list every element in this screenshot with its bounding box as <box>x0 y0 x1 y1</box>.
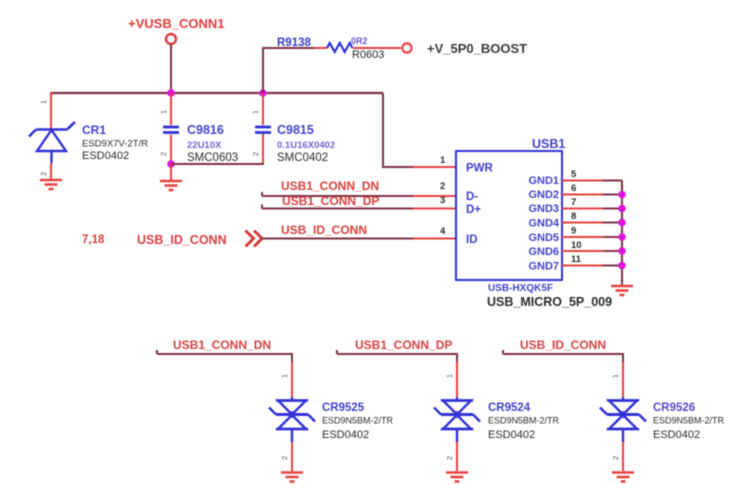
svg-text:8: 8 <box>571 211 576 222</box>
wire USB1_CONN_DN to CR9525 <box>157 350 292 363</box>
svg-text:1: 1 <box>251 110 260 114</box>
wire pin 4 stub USB1 <box>413 238 457 240</box>
svg-text:1: 1 <box>280 374 289 378</box>
wire GND7 pin 11 <box>562 265 604 267</box>
svg-text:2: 2 <box>611 456 620 460</box>
wire from R9138 to +V_5P0_BOOST terminal <box>353 47 401 49</box>
node junction bottom of C9816 <box>167 160 175 168</box>
svg-text:2: 2 <box>251 152 260 156</box>
wire CR1 pin 2 stub <box>50 163 52 179</box>
svg-text:2: 2 <box>39 172 48 176</box>
wire GND1 pin 5 <box>562 180 604 182</box>
svg-text:4: 4 <box>440 226 446 237</box>
svg-text:USB-HXQK5F: USB-HXQK5F <box>488 283 553 294</box>
resistor R9138 <box>277 36 384 61</box>
diode CR1 <box>29 122 148 163</box>
ground below CR1 <box>40 180 62 189</box>
svg-text:1: 1 <box>611 374 620 378</box>
wire PWR branch from top bus to USB1 pin 1 <box>383 93 414 167</box>
svg-text:1: 1 <box>39 100 48 104</box>
svg-text:USB_ID_CONN: USB_ID_CONN <box>137 233 227 247</box>
wire pin 3 stub USB1 <box>413 208 457 210</box>
wire GND3 pin 7 <box>562 208 604 210</box>
node junction pin 8 <box>618 219 626 227</box>
svg-text:0.1U16X0402: 0.1U16X0402 <box>277 140 335 151</box>
svg-text:USB_MICRO_5P_009: USB_MICRO_5P_009 <box>487 295 612 309</box>
ground below CR9524 <box>446 473 468 482</box>
svg-text:ESD9X7V-2T/R: ESD9X7V-2T/R <box>82 139 148 150</box>
node junction pin 10 <box>618 247 626 255</box>
wire GND4 pin 8 <box>562 222 604 224</box>
svg-text:2: 2 <box>280 456 289 460</box>
wire CR9524 pin 1 stub <box>456 362 458 397</box>
svg-text:CR9524: CR9524 <box>488 402 531 414</box>
wire C9815 pin 2 red segment <box>262 135 264 164</box>
wire CR9526 pin 2 stub <box>622 442 624 471</box>
wire GND5 pin 9 <box>562 236 604 238</box>
svg-text:USB1_CONN_DP: USB1_CONN_DP <box>282 194 379 208</box>
svg-text:PWR: PWR <box>466 163 494 175</box>
wire bottom bus C9816 to C9815 <box>171 134 263 164</box>
svg-text:+V_5P0_BOOST: +V_5P0_BOOST <box>427 41 527 56</box>
svg-text:7: 7 <box>571 197 576 208</box>
wire C9816 to ground <box>170 164 172 180</box>
svg-text:ESD9N5BM-2/TR: ESD9N5BM-2/TR <box>322 416 394 426</box>
capacitor C9816 <box>163 123 238 164</box>
svg-text:ID: ID <box>466 234 478 246</box>
svg-text:0R2: 0R2 <box>351 36 368 46</box>
svg-text:GND3: GND3 <box>528 203 559 215</box>
svg-text:6: 6 <box>571 183 576 194</box>
wire C9816 pin 2 stub <box>170 135 172 165</box>
svg-text:CR1: CR1 <box>82 123 106 137</box>
svg-text:7,18: 7,18 <box>82 234 105 246</box>
svg-text:ESD9N5BM-2/TR: ESD9N5BM-2/TR <box>488 416 560 426</box>
svg-text:USB_ID_CONN: USB_ID_CONN <box>520 338 606 352</box>
svg-text:ESD0402: ESD0402 <box>653 429 700 441</box>
wire CR9525 pin 2 stub <box>291 442 293 471</box>
svg-text:CR9525: CR9525 <box>322 402 365 414</box>
svg-text:GND5: GND5 <box>528 232 559 244</box>
svg-text:2: 2 <box>440 181 445 192</box>
svg-text:1: 1 <box>445 374 454 378</box>
wire USB_ID_CONN <box>261 238 414 240</box>
wire CR1 pin 1 stub <box>50 92 52 129</box>
wire CR9526 pin 1 stub <box>622 362 624 397</box>
svg-text:ESD0402: ESD0402 <box>488 429 535 441</box>
svg-text:C9815: C9815 <box>277 123 314 137</box>
off-page connector chevrons <box>246 231 263 247</box>
svg-text:GND2: GND2 <box>528 189 559 201</box>
svg-text:2: 2 <box>445 456 454 460</box>
ground below CR9525 <box>281 473 303 482</box>
power symbol +VUSB_CONN1 <box>128 16 224 44</box>
connector USB1 body <box>456 137 612 309</box>
diode CR9525 <box>269 397 394 442</box>
svg-text:R9138: R9138 <box>277 37 311 49</box>
svg-text:10: 10 <box>571 240 582 251</box>
svg-text:C9816: C9816 <box>187 123 224 137</box>
wire USB1_CONN_DP <box>262 205 414 209</box>
svg-text:1: 1 <box>440 155 446 166</box>
svg-text:D+: D+ <box>466 204 481 216</box>
svg-text:GND4: GND4 <box>528 218 559 230</box>
svg-text:3: 3 <box>440 195 445 206</box>
node junction pin 9 <box>618 233 626 241</box>
svg-text:USB1_CONN_DN: USB1_CONN_DN <box>281 179 379 193</box>
svg-text:GND6: GND6 <box>528 246 559 258</box>
svg-text:SMC0402: SMC0402 <box>277 152 328 164</box>
svg-text:9: 9 <box>571 226 576 237</box>
wire GND6 pin 10 <box>562 250 604 252</box>
ground below USB1 bus <box>611 286 633 295</box>
svg-text:GND7: GND7 <box>528 261 559 273</box>
wire GND2 pin 6 <box>562 194 604 196</box>
svg-text:ESD0402: ESD0402 <box>322 429 369 441</box>
svg-text:R0603: R0603 <box>352 49 384 61</box>
svg-text:11: 11 <box>571 254 582 265</box>
wire CR9524 pin 2 stub <box>456 442 458 471</box>
wire USB_ID_CONN to CR9526 <box>503 350 623 363</box>
svg-text:2: 2 <box>159 152 168 156</box>
svg-text:CR9526: CR9526 <box>653 402 695 414</box>
wire CR9525 pin 1 stub <box>291 362 293 397</box>
wire pin 2 stub USB1 <box>413 195 457 197</box>
svg-text:ESD9N5BM-2/TR: ESD9N5BM-2/TR <box>653 416 725 426</box>
wire USB1_CONN_DN <box>262 192 414 196</box>
svg-text:GND1: GND1 <box>528 175 559 187</box>
ground below C9816 <box>160 181 182 190</box>
wire from +VUSB_CONN1 to top bus <box>170 45 172 94</box>
svg-text:USB1: USB1 <box>532 137 565 151</box>
wire C9816 pin 1 stub <box>170 93 172 125</box>
svg-text:+VUSB_CONN1: +VUSB_CONN1 <box>128 16 224 31</box>
ground below CR9526 <box>612 473 634 482</box>
wire ground bus right of USB1 <box>621 181 623 286</box>
node junction pin 6 <box>618 191 626 199</box>
node junction at C9816/power <box>167 89 175 97</box>
diode CR9526 <box>600 397 725 442</box>
node junction pin 7 <box>618 205 626 213</box>
svg-text:5: 5 <box>571 169 577 180</box>
wire top bus <box>51 92 383 94</box>
svg-text:USB_ID_CONN: USB_ID_CONN <box>281 223 367 237</box>
wire R9138 branch up and across <box>263 48 315 93</box>
capacitor C9815 <box>255 123 335 164</box>
svg-text:USB1_CONN_DN: USB1_CONN_DN <box>173 338 271 352</box>
node junction at C9815/R9138 <box>259 89 267 97</box>
wire C9815 pin 1 stub <box>262 93 264 125</box>
svg-text:1: 1 <box>159 110 168 114</box>
svg-text:22U10X: 22U10X <box>187 140 222 151</box>
svg-text:SMC0603: SMC0603 <box>187 152 238 164</box>
diode CR9524 <box>434 397 560 442</box>
power terminal +V_5P0_BOOST <box>402 41 527 56</box>
wire red stub into R9138 <box>314 47 327 49</box>
svg-text:ESD0402: ESD0402 <box>82 150 129 162</box>
node junction pin 11 <box>618 262 626 270</box>
wire pin 1 stub USB1 <box>413 166 457 168</box>
svg-text:D-: D- <box>466 191 478 203</box>
svg-text:USB1_CONN_DP: USB1_CONN_DP <box>355 338 452 352</box>
wire USB1_CONN_DP to CR9524 <box>337 350 457 363</box>
